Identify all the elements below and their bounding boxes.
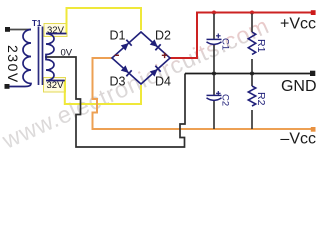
svg-text:–Vcc: –Vcc	[280, 131, 316, 148]
C2 plus sign	[216, 91, 221, 96]
resistor R1	[248, 32, 255, 55]
terminal +Vcc	[311, 10, 316, 15]
terminal GND	[310, 71, 315, 76]
diode D3	[120, 65, 131, 76]
svg-text:32V: 32V	[47, 80, 65, 91]
resistor R2 wires	[251, 75, 253, 130]
capacitor C1	[207, 39, 222, 44]
wire GND rail	[185, 73, 313, 75]
svg-text:D2: D2	[155, 29, 171, 43]
wire primary top	[10, 29, 31, 31]
capacitor C1 wires	[213, 14, 215, 73]
wire yellow bottom: 32V tap to bridge bottom	[65, 80, 141, 104]
primary winding	[9, 30, 31, 87]
resistor R2	[248, 86, 255, 106]
label box 32V top	[44, 24, 67, 37]
resistor R1 wires	[251, 14, 253, 73]
svg-text:+Vcc: +Vcc	[280, 16, 316, 33]
bridge plus sign	[162, 53, 168, 59]
svg-text:D4: D4	[155, 75, 171, 89]
terminal primary top	[5, 27, 10, 32]
label box 32V bottom	[44, 78, 66, 93]
C1 plus sign	[216, 34, 221, 39]
svg-text:C2: C2	[220, 94, 231, 106]
secondary lower winding with 32V tap	[46, 57, 65, 81]
capacitor C2 wires	[213, 75, 215, 130]
wire yellow top: 32V tap to bridge top	[67, 8, 142, 34]
svg-text:R1: R1	[255, 39, 267, 53]
terminal -Vcc	[311, 127, 316, 132]
diode D2	[149, 39, 160, 50]
junction on +Vcc at C1	[212, 11, 216, 15]
bridge rectifier diamond	[112, 32, 170, 84]
core	[39, 27, 43, 86]
bridge minus sign	[115, 54, 120, 56]
svg-text:T1: T1	[32, 19, 42, 28]
svg-text:R2: R2	[255, 92, 267, 106]
svg-text:D3: D3	[110, 75, 126, 89]
secondary upper winding with 32V tap	[46, 34, 67, 58]
svg-text:C1: C1	[220, 38, 231, 50]
junction on GND at R2	[250, 72, 254, 76]
junction on GND at C2	[212, 72, 216, 76]
svg-text:D1: D1	[110, 29, 126, 43]
diode D1	[120, 40, 131, 51]
terminal primary bottom	[5, 84, 10, 89]
svg-text:GND: GND	[281, 78, 317, 95]
diode D4	[149, 66, 160, 77]
capacitor C2	[207, 95, 222, 100]
wire red: bridge plus to +Vcc rail	[170, 13, 313, 59]
svg-text:230V: 230V	[5, 45, 21, 84]
wire 0V: center tap to GND rail	[45, 57, 185, 147]
wire orange: bridge minus to -Vcc rail	[93, 58, 314, 129]
junction on +Vcc at R1	[250, 11, 254, 15]
